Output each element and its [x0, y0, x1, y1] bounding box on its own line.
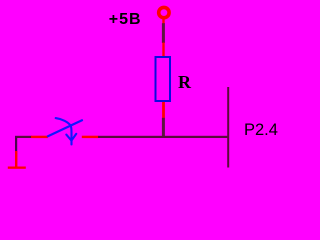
power terminal +5V ring	[159, 7, 169, 17]
switch arrowhead	[66, 134, 76, 141]
wire dark vertical left drop to ground	[15, 136, 17, 151]
svg-text:P2.4: P2.4	[244, 121, 278, 139]
wire red segment into resistor top	[162, 43, 164, 57]
resistor R	[156, 57, 171, 101]
port pin line P2.4	[227, 87, 229, 168]
ground bar	[8, 167, 26, 169]
wire red segment below resistor	[162, 102, 165, 118]
switch SB blade	[48, 120, 82, 136]
wire red vertical to ground bar	[15, 151, 17, 168]
svg-text:+5В: +5В	[109, 11, 142, 28]
wire dark segment resistor to node	[162, 118, 165, 137]
wire red horizontal from switch right contact	[82, 136, 99, 138]
wire red horizontal to switch left contact	[31, 136, 48, 138]
svg-text:R: R	[178, 72, 192, 92]
wire dark segment terminal to resistor	[162, 23, 165, 43]
wire red stub below terminal	[162, 19, 164, 25]
wire dark horizontal left end	[15, 136, 32, 138]
wire dark horizontal node to port	[98, 136, 229, 138]
switch actuation arrow curve	[56, 118, 72, 144]
